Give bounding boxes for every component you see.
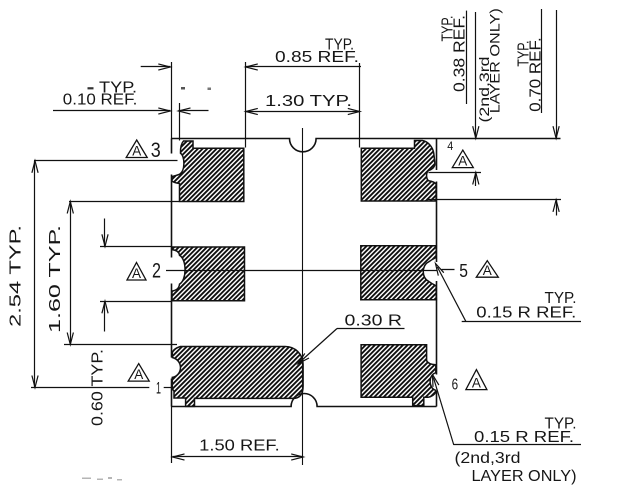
svg-text:LAYER ONLY): LAYER ONLY) [472, 468, 577, 485]
svg-text:2.54 TYP.: 2.54 TYP. [8, 225, 25, 327]
svg-text:6: 6 [452, 377, 459, 394]
svg-text:5: 5 [459, 261, 468, 281]
svg-text:3: 3 [151, 139, 161, 162]
svg-text:0.85 REF.: 0.85 REF. [275, 49, 359, 66]
svg-text:0.15 R REF.: 0.15 R REF. [474, 429, 574, 446]
svg-text:0.60 TYP.: 0.60 TYP. [90, 349, 107, 426]
svg-text:A: A [483, 263, 492, 278]
svg-text:A: A [472, 375, 481, 390]
svg-text:0.30 R: 0.30 R [345, 313, 403, 330]
svg-text:0.38 REF.: 0.38 REF. [452, 15, 469, 92]
svg-text:1.50 REF.: 1.50 REF. [199, 438, 279, 455]
svg-text:1.30 TYP.: 1.30 TYP. [265, 93, 352, 110]
svg-text:0.70 REF.: 0.70 REF. [528, 37, 545, 112]
svg-text:2: 2 [152, 260, 161, 283]
svg-text:(2nd,3rd: (2nd,3rd [455, 450, 521, 467]
svg-text:A: A [134, 367, 143, 382]
svg-text:1.60 TYP.: 1.60 TYP. [47, 225, 64, 333]
svg-text:0.10 REF.: 0.10 REF. [63, 92, 138, 109]
svg-text:1: 1 [156, 378, 161, 397]
svg-text:A: A [132, 143, 141, 158]
svg-text:LAYER ONLY): LAYER ONLY) [488, 8, 503, 113]
svg-text:A: A [458, 153, 467, 168]
svg-text:0.15 R REF.: 0.15 R REF. [476, 305, 576, 322]
svg-text:A: A [132, 266, 141, 281]
svg-text:4: 4 [447, 141, 454, 153]
